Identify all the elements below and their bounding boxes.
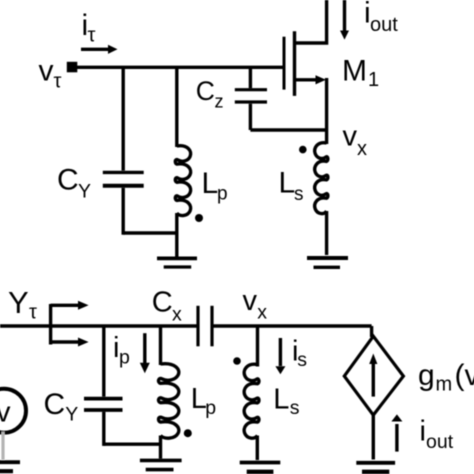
wire: stub to L_p (top) bbox=[175, 67, 178, 147]
controlled source g_m: diamond bbox=[344, 336, 403, 415]
label L_p (bottom) bbox=[191, 383, 216, 419]
label L_p (top) bbox=[202, 167, 228, 205]
controlled source g_m: stub from wire bbox=[370, 326, 373, 337]
wire: L_p to ground (bottom circuit) bbox=[159, 436, 162, 459]
arrow i_p bbox=[140, 333, 150, 373]
svg-text:1: 1 bbox=[368, 69, 379, 91]
voltage source v (clipped at left edge) bbox=[0, 389, 26, 433]
svg-text:p: p bbox=[119, 347, 130, 369]
svg-text:Y: Y bbox=[78, 180, 91, 202]
wire: L_s bottom to ground bbox=[325, 211, 328, 255]
svg-text:M: M bbox=[342, 55, 367, 88]
svg-text:m: m bbox=[436, 374, 453, 396]
inductor L_p (bottom, bumps right) bbox=[159, 364, 179, 438]
dot near L_p bottom (top circuit) bbox=[195, 214, 203, 222]
wire: bottom joining C_Y and L_p (bottom circuit) bbox=[104, 443, 161, 446]
gray stem below source bbox=[1, 432, 4, 460]
transistor M1: gate bar bbox=[283, 37, 286, 90]
svg-text:C: C bbox=[152, 286, 173, 318]
dot near L_s top bbox=[299, 146, 307, 154]
label C_x bbox=[152, 286, 182, 325]
transistor M1: channel bar bbox=[293, 31, 296, 96]
wire: stub to L_p (bottom) bbox=[159, 326, 162, 365]
ground (top left) bbox=[157, 258, 197, 267]
label i_p bbox=[113, 332, 130, 369]
svg-text:C: C bbox=[196, 76, 215, 106]
svg-text:g: g bbox=[418, 359, 435, 392]
label v_x (top) bbox=[343, 121, 368, 160]
ground (top L_s) bbox=[307, 258, 348, 267]
label i_out (top) bbox=[364, 0, 398, 36]
label i_s bbox=[292, 336, 307, 372]
svg-text:out: out bbox=[426, 431, 454, 453]
wire: bottom joining C_Y and L_p (top circuit) bbox=[123, 231, 177, 234]
svg-text:(v: (v bbox=[455, 359, 474, 392]
svg-text:Y: Y bbox=[65, 404, 78, 426]
svg-text:s: s bbox=[297, 349, 307, 371]
svg-text:p: p bbox=[205, 397, 216, 419]
arrow i_tau bbox=[81, 45, 118, 54]
capacitor C_Y (top) bbox=[103, 67, 144, 234]
svg-text:i: i bbox=[420, 416, 426, 448]
wire: source with arrow bbox=[295, 75, 327, 144]
label i_out (bottom) bbox=[420, 416, 454, 453]
arrow i_out (bottom) bbox=[391, 414, 402, 451]
svg-text:L: L bbox=[279, 166, 296, 199]
svg-text:x: x bbox=[257, 302, 267, 324]
svg-text:x: x bbox=[172, 304, 182, 326]
capacitor C_z bbox=[235, 67, 267, 130]
label C_Y (top) bbox=[57, 164, 91, 203]
wire: main bottom horizontal (left of C_x) bbox=[0, 324, 197, 328]
label v_x (bottom) bbox=[243, 285, 268, 324]
label g_m(v bbox=[418, 359, 474, 396]
label C_z bbox=[196, 76, 224, 111]
wire: L_s to ground (bottom circuit) bbox=[256, 436, 259, 461]
wire: C_z bottom to source node bbox=[250, 128, 326, 131]
inductor L_s (top, bumps left) bbox=[315, 143, 328, 214]
label L_s (top) bbox=[279, 166, 304, 205]
svg-text:τ: τ bbox=[88, 25, 96, 47]
svg-text:s: s bbox=[294, 184, 304, 205]
wire: L_p to ground (top circuit) bbox=[175, 213, 178, 257]
terminal square v_tau bbox=[67, 62, 78, 73]
dot near L_p bottom (bottom circuit) bbox=[184, 429, 192, 437]
wire: main bottom horizontal (right of C_x) bbox=[214, 324, 372, 328]
svg-text:x: x bbox=[357, 138, 367, 160]
svg-text:τ: τ bbox=[54, 71, 62, 93]
arrow i_s bbox=[275, 338, 285, 374]
capacitor C_x (series) bbox=[198, 306, 212, 347]
ground (bottom left-mid) bbox=[140, 460, 182, 469]
label Y_tau bbox=[8, 285, 37, 324]
svg-text:L: L bbox=[202, 167, 219, 200]
wire: diamond to ground bbox=[372, 415, 375, 459]
arrow i_out (top) bbox=[340, 0, 349, 40]
svg-text:C: C bbox=[44, 388, 66, 421]
ground (left edge, clipped) bbox=[0, 462, 20, 471]
controlled source g_m: inner arrow bbox=[369, 354, 377, 397]
svg-text:s: s bbox=[290, 397, 300, 419]
label C_Y (bottom) bbox=[44, 388, 79, 426]
label v_tau bbox=[39, 55, 62, 93]
ground (bottom L_s) bbox=[240, 463, 281, 472]
svg-text:z: z bbox=[215, 91, 224, 111]
svg-text:v: v bbox=[39, 55, 54, 88]
svg-text:p: p bbox=[217, 184, 228, 205]
label i_tau bbox=[82, 9, 96, 47]
svg-text:C: C bbox=[57, 164, 79, 197]
svg-text:v: v bbox=[243, 285, 258, 317]
inductor L_s (bottom, bumps left) bbox=[244, 364, 259, 438]
svg-text:τ: τ bbox=[29, 302, 37, 324]
wire: v_x node down to L_s (bottom) bbox=[256, 326, 259, 367]
wire: main top horizontal (gate line) bbox=[73, 66, 284, 69]
inductor L_p (top, bumps right) bbox=[175, 146, 190, 216]
port bracket with two arrows (Y_tau) bbox=[51, 301, 89, 347]
ground (under diamond) bbox=[356, 463, 395, 472]
svg-text:v: v bbox=[343, 121, 358, 153]
wire: drain up to top edge bbox=[295, 0, 327, 43]
capacitor C_Y (bottom) bbox=[84, 326, 123, 446]
label L_s (bottom) bbox=[273, 384, 300, 420]
dot near L_s top (bottom circuit) bbox=[233, 357, 241, 365]
svg-text:Y: Y bbox=[8, 285, 29, 320]
svg-text:v: v bbox=[0, 397, 11, 429]
label M1 bbox=[342, 55, 379, 91]
svg-text:L: L bbox=[273, 384, 289, 416]
svg-text:out: out bbox=[370, 14, 398, 36]
